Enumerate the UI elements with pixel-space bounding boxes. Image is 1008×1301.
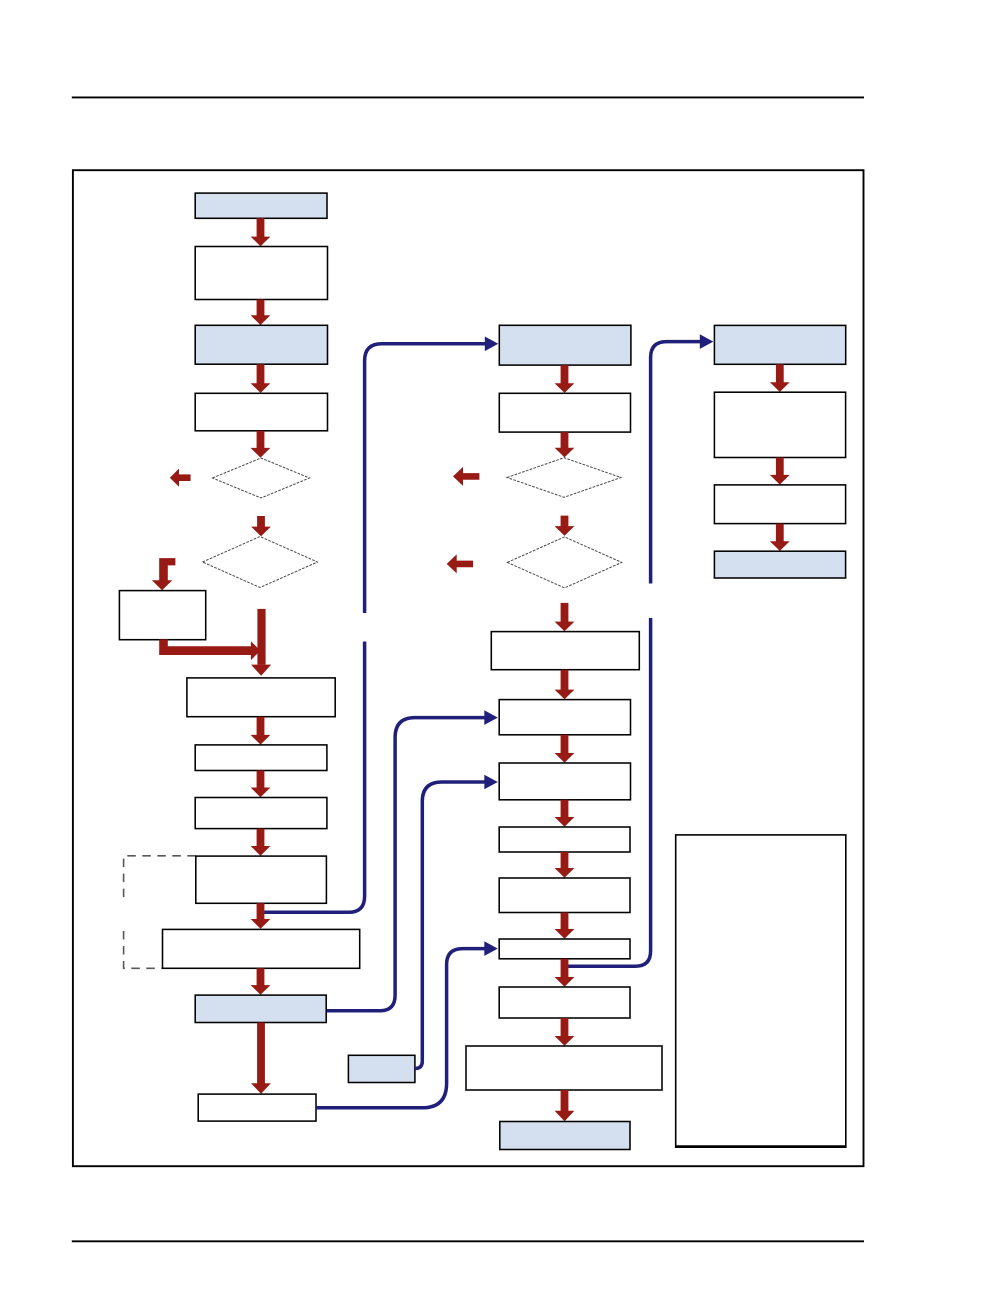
box M10 [499, 939, 630, 959]
connector C3 [316, 949, 485, 1108]
box L9 [163, 929, 360, 968]
thick red line D2 down [257, 609, 265, 665]
box R4 [714, 551, 845, 578]
arrow M8-M9 [555, 852, 575, 878]
arrow L6-L7 [251, 771, 271, 798]
box M8 [499, 827, 630, 852]
connector C1 arrowhead [485, 337, 499, 352]
decision D1 [213, 458, 310, 498]
connector C5 upper segment [651, 342, 700, 584]
connector C5 lower segment [566, 618, 651, 966]
diagram frame [73, 170, 864, 1166]
arrow M9-M10 [555, 913, 575, 939]
top rule [72, 96, 864, 98]
box BR bottom edge [676, 1145, 846, 1148]
box M6 [499, 700, 630, 735]
arrow MD2-M5 [555, 603, 575, 631]
connector C1 lower segment [264, 642, 365, 913]
arrow L2-L3 [251, 300, 271, 326]
box M9 [499, 878, 630, 913]
box L5 [187, 678, 335, 717]
box R3 [714, 485, 845, 524]
connector C4 arrowhead [484, 775, 498, 790]
decision D2 [203, 537, 318, 588]
box M2 [499, 393, 630, 432]
connector C2 [327, 718, 485, 1011]
box L6 [195, 745, 327, 771]
arrow R2-R3 [770, 458, 790, 485]
box S1 [119, 591, 205, 640]
box M12 [466, 1046, 662, 1090]
elbow arrow D2 to box S1 [152, 558, 176, 590]
connector C3 arrowhead [484, 941, 498, 956]
bottom rule [72, 1240, 864, 1242]
arrow R3-R4 [770, 524, 790, 551]
arrow L9-L10 [251, 968, 271, 995]
box R1 [714, 325, 845, 364]
arrow D1-D2 [251, 516, 271, 536]
box L10 [195, 995, 326, 1022]
elbow arrow S1 to red line [159, 639, 260, 660]
arrow L5-L6 [251, 717, 271, 745]
arrow M5-M6 [555, 670, 575, 700]
arrow M1-M2 [555, 365, 575, 393]
box BR large [676, 835, 846, 1147]
connector C5 arrowhead [700, 334, 714, 349]
arrow L8-L9 [251, 903, 271, 928]
arrow MD2 exit left [447, 554, 473, 573]
box M13 [500, 1122, 630, 1150]
connector C1 upper segment [365, 344, 485, 613]
arrow M12-M13 [555, 1090, 575, 1121]
connector C4 [415, 782, 485, 1069]
box S2 [348, 1055, 415, 1082]
box M1 [499, 325, 631, 365]
arrow L1-L2 [251, 218, 271, 246]
decision MD2 [507, 537, 621, 588]
dashed frame left of L8 [124, 856, 196, 969]
box L7 [195, 798, 327, 829]
box L4 [195, 393, 327, 431]
box L8 [196, 856, 327, 903]
arrowhead into L5 [251, 665, 271, 676]
arrow M7-M8 [555, 800, 575, 827]
arrow D1 exit left [170, 469, 191, 487]
arrow M2-MD1 [555, 432, 575, 457]
box L3 [195, 325, 327, 364]
arrow R1-R2 [770, 364, 790, 392]
arrow L3-L4 [251, 364, 271, 393]
arrow MD1-MD2 [555, 516, 575, 536]
connector C2 arrowhead [484, 710, 498, 725]
arrow M10-M11 [555, 959, 575, 987]
box L11 [198, 1094, 316, 1121]
box R2 [714, 392, 845, 457]
long arrow L10-L11 [251, 1023, 271, 1094]
arrow M6-M7 [555, 735, 575, 763]
decision MD1 [507, 458, 621, 498]
box L1 [195, 193, 327, 218]
box L2 [195, 247, 327, 300]
arrow L4-D1 [251, 431, 271, 458]
box M5 [491, 632, 639, 670]
box M11 [499, 987, 630, 1018]
arrow MD1 exit left [453, 467, 479, 486]
arrow M11-M12 [555, 1018, 575, 1046]
box M7 [499, 763, 630, 800]
arrow L7-L8 [251, 829, 271, 856]
